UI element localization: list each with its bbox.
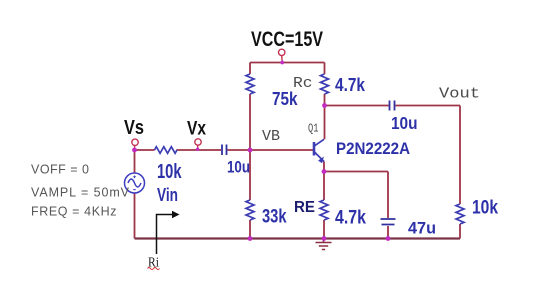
svg-text:10u: 10u	[391, 113, 418, 133]
svg-text:Vin: Vin	[157, 185, 178, 205]
capacitor C 10u input	[222, 145, 227, 156]
svg-text:P2N2222A: P2N2222A	[336, 139, 410, 158]
svg-text:47u: 47u	[408, 219, 436, 238]
resistor R 10k input	[155, 147, 177, 154]
capacitor C 47u bypass	[381, 219, 396, 225]
node marker Vs	[132, 139, 138, 148]
junction dot Vx stem	[196, 148, 199, 151]
wire emitter branch	[323, 162, 325, 239]
squiggle under Ri	[148, 268, 160, 270]
node marker VCC	[279, 49, 285, 61]
junction dot collector	[322, 103, 327, 108]
svg-text:10k: 10k	[472, 198, 498, 219]
capacitor C 10u output	[390, 101, 395, 111]
svg-text:10u: 10u	[227, 158, 250, 177]
svg-text:33k: 33k	[262, 207, 287, 228]
resistor RE 4.7k	[320, 200, 328, 220]
svg-text:VCC=15V: VCC=15V	[251, 28, 323, 51]
junction dot VB	[248, 148, 253, 153]
junction dot emitter	[322, 169, 327, 174]
svg-text:4.7k: 4.7k	[335, 208, 366, 229]
svg-text:Rc: Rc	[293, 76, 313, 92]
voltage source Vs sine	[125, 173, 145, 193]
svg-text:Vout: Vout	[439, 86, 480, 103]
junction dot RE bottom	[322, 236, 327, 241]
wire divider branch	[249, 63, 251, 239]
wire bottom ground rail	[135, 237, 461, 239]
resistor 10k load	[456, 204, 464, 224]
junction dot VCC stem	[280, 61, 284, 65]
resistor 33k	[246, 200, 254, 220]
svg-text:Q1: Q1	[308, 123, 319, 136]
junction dot Vs	[132, 148, 137, 153]
junction dot 33k bottom	[248, 236, 253, 241]
node marker Vx	[195, 139, 201, 149]
svg-text:RE: RE	[294, 199, 315, 216]
svg-text:75k: 75k	[272, 89, 298, 109]
wire top VCC rail	[250, 62, 325, 64]
svg-text:4.7k: 4.7k	[335, 75, 366, 95]
wire Rc collector branch	[324, 63, 326, 140]
svg-text:Vs: Vs	[124, 117, 144, 139]
resistor 75k	[246, 74, 254, 94]
annotation arrow Ri	[157, 211, 180, 254]
svg-text:VOFF = 0: VOFF = 0	[31, 163, 89, 177]
svg-text:10k: 10k	[157, 161, 182, 183]
svg-text:Vx: Vx	[187, 119, 206, 140]
svg-text:VB: VB	[262, 129, 280, 145]
svg-text:VAMPL = 50mV: VAMPL = 50mV	[31, 186, 130, 200]
wire collector to output cap to load	[325, 106, 461, 239]
wire Vs source branch	[134, 150, 136, 239]
transistor Q1 P2N2222A	[314, 139, 324, 163]
junction dot 47u bottom	[386, 236, 391, 241]
svg-text:FREQ = 4KHz: FREQ = 4KHz	[31, 205, 117, 219]
ground symbol	[316, 239, 332, 250]
wire input row Vs to base	[135, 149, 314, 151]
resistor Rc 4.7k	[321, 74, 329, 94]
wire emitter to bypass cap	[324, 172, 388, 239]
